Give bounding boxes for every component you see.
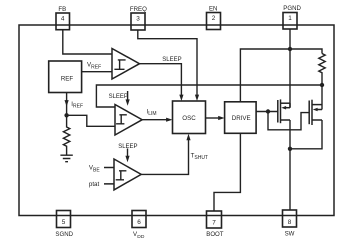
svg-text:7: 7 <box>212 219 216 226</box>
transistor Q1 <box>278 99 290 123</box>
sleep arrow into U3 <box>125 149 129 163</box>
wire current sense line to U2 top input <box>96 85 322 107</box>
svg-text:FB: FB <box>58 6 66 13</box>
junction dot SW node <box>288 147 292 151</box>
sleep arrow into U2 <box>126 91 130 106</box>
arrowheads <box>65 95 225 141</box>
svg-text:BOOT: BOOT <box>206 231 224 238</box>
svg-text:3: 3 <box>136 16 140 23</box>
wire PGND node to resistor R1 top <box>290 49 322 54</box>
arrow Q1 body <box>281 106 286 110</box>
svg-text:PGND: PGND <box>283 5 301 12</box>
pin 6 VDD <box>132 211 146 241</box>
IC outline border <box>19 25 334 216</box>
wire IREF node to U2 bottom input <box>67 115 115 126</box>
arrow ILIM into OSC left <box>166 118 172 122</box>
arrow SLEEP into OSC top <box>179 95 183 101</box>
svg-text:SW: SW <box>285 231 295 238</box>
wire U3 output TSHUT to OSC bottom <box>141 139 188 174</box>
junction dot PGND node <box>288 47 292 51</box>
pin 4 FB <box>56 6 70 30</box>
junction dot IREF node <box>64 113 68 117</box>
wire IREF from REF box down <box>66 93 68 116</box>
pin 5 SGND <box>55 211 73 239</box>
block DRIVE <box>225 102 257 134</box>
svg-text:1: 1 <box>288 15 292 22</box>
junction dot sense resistor bottom <box>320 83 324 87</box>
junction dot gate node <box>266 109 270 113</box>
pin 3 FREQ <box>130 6 147 30</box>
comparator U1 sleep/error <box>112 49 140 80</box>
arrow IREF down <box>65 100 69 106</box>
transistor Q2 <box>309 100 322 125</box>
wire PGND node to DRIVE top <box>240 49 290 102</box>
wire Q1 source to SW pin <box>289 120 291 211</box>
svg-text:SLEEP: SLEEP <box>162 57 181 63</box>
svg-text:2: 2 <box>212 15 216 22</box>
comparator U3 thermal <box>104 159 141 190</box>
svg-text:ptat: ptat <box>89 181 100 188</box>
wire PGND pin down to Q1 drain <box>289 29 291 108</box>
resistor R2 IREF setting <box>63 115 69 155</box>
svg-text:4: 4 <box>61 16 65 23</box>
wire DRIVE bottom to BOOT pin <box>214 133 240 210</box>
wire U1 SLEEP output to OSC top <box>140 64 182 96</box>
svg-text:SGND: SGND <box>55 231 73 238</box>
svg-text:DD: DD <box>137 234 145 240</box>
svg-text:FREQ: FREQ <box>130 6 147 13</box>
comparator U2 current limit <box>115 105 142 136</box>
block REF <box>49 61 82 93</box>
wire OSC to DRIVE <box>206 117 220 119</box>
svg-text:6: 6 <box>137 219 141 226</box>
wire FB pin to comparator U1 top input <box>63 30 112 54</box>
svg-text:SLEEP: SLEEP <box>109 94 128 100</box>
svg-text:EN: EN <box>209 6 217 13</box>
arrow Q2 body <box>313 108 318 112</box>
pin 1 PGND <box>283 5 302 29</box>
arrow OSC into DRIVE left <box>218 116 224 120</box>
svg-text:8: 8 <box>288 219 292 226</box>
ground symbol <box>60 155 72 162</box>
svg-text:SLEEP: SLEEP <box>118 144 137 150</box>
pin 8 SW <box>283 210 297 238</box>
wire DRIVE output to Q1 gate <box>256 111 278 113</box>
svg-text:REF: REF <box>61 75 74 82</box>
resistor R1 current sense <box>319 54 325 86</box>
wire gate routing to Q2 gate <box>268 112 309 130</box>
svg-text:5: 5 <box>62 219 66 226</box>
block OSC <box>173 101 206 134</box>
wire FREQ pin to OSC top <box>138 30 197 96</box>
pin 7 BOOT <box>206 211 224 238</box>
svg-text:DRIVE: DRIVE <box>232 115 251 122</box>
pin 2 EN <box>207 6 221 30</box>
wire VREF from REF to U1 bottom input <box>82 71 112 73</box>
wire SW node to Q2 source <box>290 120 322 149</box>
wire sense dot to Q2 drain <box>321 85 323 110</box>
svg-text:OSC: OSC <box>182 115 196 122</box>
wire U2 ILIM output to OSC left <box>142 119 167 121</box>
arrow TSHUT into OSC bottom <box>186 134 190 140</box>
arrow FREQ into OSC top <box>195 95 199 101</box>
